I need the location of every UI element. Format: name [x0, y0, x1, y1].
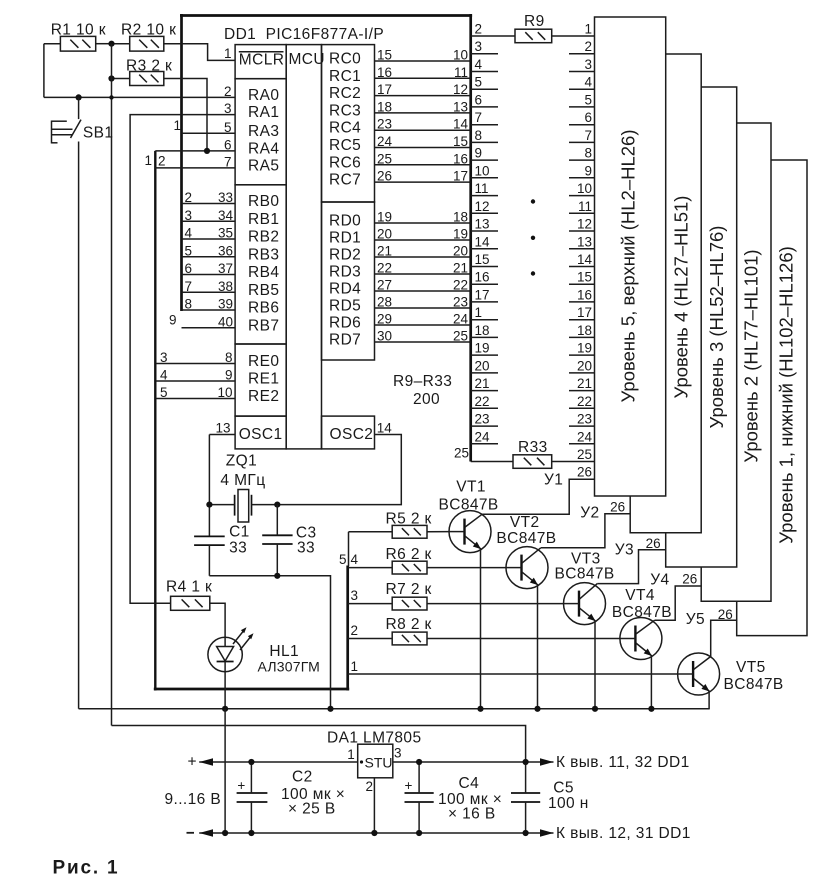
wire R1 left: [44, 43, 61, 45]
node RA4 junction with R3: [204, 148, 210, 154]
svg-text:BC847B: BC847B: [555, 566, 615, 583]
svg-text:+: +: [237, 778, 245, 793]
svg-text:К выв. 11, 32 DD1: К выв. 11, 32 DD1: [556, 754, 690, 771]
svg-text:21: 21: [577, 376, 592, 391]
svg-text:RC1: RC1: [329, 68, 361, 85]
svg-text:3: 3: [475, 39, 483, 54]
node Y1 wire from display1 pin26: [482, 479, 594, 514]
svg-text:VT2: VT2: [510, 514, 540, 531]
svg-text:9: 9: [475, 146, 483, 161]
svg-text:У5: У5: [686, 611, 705, 628]
svg-text:У1: У1: [544, 472, 563, 489]
svg-text:2: 2: [584, 39, 592, 54]
svg-text:8: 8: [584, 146, 592, 161]
wire RB7 stub: [182, 327, 236, 329]
IC left column box: RB section: [235, 185, 286, 344]
wire RD1 to board edge: [375, 239, 471, 241]
thick routed wire right vertical x347.7: [346, 566, 349, 691]
svg-text:RB4: RB4: [248, 264, 279, 281]
wire junction to R3: [112, 78, 130, 80]
wire RB2 stub: [182, 238, 236, 240]
minus sign: [187, 832, 195, 834]
svg-text:BC847B: BC847B: [496, 530, 556, 547]
node Y3 wire from display3 pin26: [597, 550, 665, 584]
svg-text:RC2: RC2: [329, 85, 361, 102]
svg-text:RC6: RC6: [329, 154, 361, 171]
svg-text:BC847B: BC847B: [439, 497, 499, 514]
svg-text:4: 4: [475, 57, 483, 72]
svg-text:RA0: RA0: [248, 87, 279, 104]
transistor VT5: [678, 653, 720, 709]
board outline top edge: [180, 14, 472, 17]
wire R1 right to junction: [96, 43, 112, 45]
svg-text:14: 14: [377, 421, 393, 436]
wire stub contact 18: [471, 336, 498, 338]
svg-text:RD0: RD0: [329, 213, 361, 230]
wire stub contact 20: [471, 372, 498, 374]
svg-text:4: 4: [584, 75, 592, 90]
IC left column box: MCLR section: [235, 45, 286, 79]
wire stub contact 11: [471, 195, 498, 197]
wire RE0 stub: [156, 363, 235, 365]
wire stub contact 23: [471, 425, 498, 427]
wire to R7: [348, 603, 393, 605]
wire stub display pin 11: [569, 212, 595, 214]
svg-text:MCU: MCU: [289, 51, 326, 68]
svg-text:C5: C5: [553, 780, 574, 797]
wire stub contact 15: [471, 266, 498, 268]
node C3 ground junction: [274, 573, 280, 579]
voltage regulator DA1 box: [358, 744, 393, 778]
transistor VT2: [506, 547, 548, 709]
svg-text:200: 200: [413, 391, 440, 408]
svg-text:16: 16: [577, 287, 592, 302]
display column HL27-HL51 (Level 4): [630, 54, 701, 533]
svg-text:ZQ1: ZQ1: [226, 453, 257, 470]
svg-text:1: 1: [224, 46, 232, 61]
node Y2 wire from display2 pin26: [541, 514, 630, 548]
svg-text:BC847B: BC847B: [612, 604, 672, 621]
wire stub display pin 7: [569, 141, 595, 143]
ellipsis dots between buses: [531, 199, 535, 203]
svg-text:5: 5: [339, 552, 347, 567]
svg-text:+: +: [405, 778, 413, 793]
svg-text:RC3: RC3: [329, 102, 361, 119]
svg-text:HL1: HL1: [269, 643, 299, 660]
svg-text:RD6: RD6: [329, 315, 361, 332]
display column HL2-HL26 (Level 5): [595, 17, 666, 496]
wire RB1 stub: [182, 220, 236, 222]
wire RE1 stub: [156, 380, 235, 382]
svg-text:7: 7: [584, 128, 592, 143]
wire stub display pin 14: [569, 266, 595, 268]
+5V rail wire: [112, 726, 526, 763]
svg-text:22: 22: [475, 394, 490, 409]
svg-text:1: 1: [475, 305, 483, 320]
wire stub contact 17: [471, 301, 498, 303]
svg-text:Уровень 1, нижний (HL102–HL126: Уровень 1, нижний (HL102–HL126): [776, 246, 797, 544]
svg-text:1: 1: [347, 747, 355, 762]
wire stub display pin 23: [569, 425, 595, 427]
wire to R6: [348, 567, 393, 569]
svg-text:R4 1 к: R4 1 к: [166, 579, 212, 596]
IC middle MCU box: [286, 45, 321, 449]
wire OSC1 pin 13: [209, 434, 235, 436]
svg-text:3: 3: [351, 588, 359, 603]
wire RC2 to board edge: [375, 95, 471, 97]
wire RC0 to board edge: [375, 60, 471, 62]
svg-text:18: 18: [475, 323, 490, 338]
output line DA1 pin3: [393, 761, 554, 763]
wire stub contact 8: [471, 141, 498, 143]
svg-text:DD1 PIC16F877A-I/P: DD1 PIC16F877A-I/P: [224, 26, 384, 43]
svg-text:RD1: RD1: [329, 230, 361, 247]
wire RA1 row to R4: [130, 115, 235, 604]
svg-text:3: 3: [394, 746, 402, 761]
plus input line: [199, 761, 358, 763]
wire stub display pin 3: [569, 71, 595, 73]
wire RC6 to board edge: [375, 164, 471, 166]
wire RB0 stub: [182, 203, 236, 205]
svg-text:RB5: RB5: [248, 282, 279, 299]
svg-text:RC4: RC4: [329, 120, 361, 137]
wire stub display pin 6: [569, 124, 595, 126]
svg-text:RD5: RD5: [329, 298, 361, 315]
svg-text:1: 1: [584, 22, 592, 37]
wire RD5 to board edge: [375, 307, 471, 309]
svg-text:13: 13: [475, 217, 490, 232]
svg-text:11: 11: [475, 181, 489, 196]
svg-text:RD7: RD7: [329, 332, 361, 349]
ground bus wire: [79, 708, 710, 710]
wire R1 left vertical to RA0: [43, 44, 45, 98]
svg-text:10: 10: [577, 181, 592, 196]
wire OSC2 pin 14 loop: [277, 435, 401, 505]
svg-text:9...16 В: 9...16 В: [165, 791, 222, 808]
svg-text:4: 4: [351, 552, 359, 567]
wire R3 right to RA4: [164, 79, 207, 151]
wire RD4 to board edge: [375, 290, 471, 292]
svg-text:RA4: RA4: [248, 140, 279, 157]
wire stub contact 14: [471, 248, 498, 250]
wire RC5 to board edge: [375, 147, 471, 149]
svg-text:SB1: SB1: [83, 125, 114, 142]
wire stub display pin 16: [569, 301, 595, 303]
svg-text:24: 24: [475, 429, 491, 444]
wire stub display pin 17: [569, 319, 595, 321]
node crystal left junction: [206, 502, 212, 508]
svg-text:19: 19: [475, 341, 490, 356]
svg-text:Рис. 1: Рис. 1: [53, 858, 120, 879]
wire to R5: [349, 531, 393, 533]
wire stub contact 16: [471, 283, 498, 285]
wire stub contact 9: [471, 159, 498, 161]
wire stub display pin 9: [569, 177, 595, 179]
svg-text:× 25 В: × 25 В: [288, 801, 336, 818]
thick routed wire vertical x155: [154, 151, 156, 691]
wire stub contact 4: [471, 71, 498, 73]
svg-text:26: 26: [610, 500, 625, 515]
+5V vertical from pull-up junction: [111, 44, 113, 726]
svg-text:R9: R9: [524, 13, 545, 30]
svg-text:25: 25: [454, 446, 469, 461]
svg-text:MCLR: MCLR: [239, 52, 285, 69]
svg-text:33: 33: [229, 540, 247, 557]
wire stub contact 5: [471, 88, 498, 90]
wire R5 corner vertical: [348, 532, 350, 566]
svg-text:RE2: RE2: [248, 388, 279, 405]
node R1/R2 junction: [108, 41, 114, 47]
wire R9 to display pin 1: [552, 35, 595, 37]
wire R8 to VT4 base: [427, 638, 620, 640]
wire RA4 row: [155, 150, 235, 152]
svg-text:RB3: RB3: [248, 246, 279, 263]
svg-text:9: 9: [584, 163, 592, 178]
svg-text:VT4: VT4: [625, 587, 655, 604]
svg-text:11: 11: [578, 199, 592, 214]
display column HL102-HL126 (Level 1): [737, 160, 807, 636]
svg-text:5: 5: [475, 75, 483, 90]
wire stub display pin 13: [569, 248, 595, 250]
svg-text:100 н: 100 н: [548, 795, 589, 812]
svg-text:3: 3: [584, 57, 592, 72]
wire R2 to MCLR pin 1: [164, 44, 235, 61]
transistor VT1: [449, 511, 491, 709]
wire R6 to VT2 base: [427, 567, 506, 569]
wire stub contact 19: [471, 354, 498, 356]
svg-text:VT1: VT1: [456, 479, 486, 496]
wire RE2 stub: [156, 398, 235, 400]
wire contact 1 to VT5 base: [348, 673, 678, 675]
svg-text:STU: STU: [365, 755, 393, 771]
wire board edge to R33: [471, 461, 513, 463]
svg-text:RA1: RA1: [248, 104, 279, 121]
svg-text:У3: У3: [615, 542, 634, 559]
wire stub display pin 15: [569, 283, 595, 285]
IC right column box: OSC2 section: [322, 416, 375, 449]
svg-text:VT5: VT5: [736, 659, 766, 676]
svg-text:RC5: RC5: [329, 137, 361, 154]
wire stub display pin 22: [569, 407, 595, 409]
wire stub contact 1: [471, 319, 498, 321]
wire junction to R2: [112, 43, 130, 45]
wire OSC1 vertical: [208, 435, 210, 537]
svg-text:33: 33: [297, 540, 315, 557]
svg-text:RE0: RE0: [248, 353, 279, 370]
svg-text:× 16 В: × 16 В: [448, 806, 496, 823]
minus line: [199, 832, 553, 834]
svg-text:C1: C1: [229, 524, 250, 541]
svg-text:2: 2: [475, 22, 483, 37]
wire DA1 pin2 to minus line: [373, 778, 375, 833]
svg-text:17: 17: [475, 287, 490, 302]
svg-text:R9–R33: R9–R33: [393, 373, 452, 390]
transistor VT3: [564, 583, 606, 709]
svg-text:АЛ307ГМ: АЛ307ГМ: [258, 659, 321, 675]
node R3 junction: [108, 75, 114, 81]
svg-text:Уровень 3 (HL52–HL76): Уровень 3 (HL52–HL76): [706, 226, 727, 429]
svg-text:Уровень 4 (HL27–HL51): Уровень 4 (HL27–HL51): [671, 196, 692, 399]
wire ground to minus line x225: [224, 709, 226, 833]
wire RD3 to board edge: [375, 273, 471, 275]
wire RC4 to board edge: [375, 129, 471, 131]
svg-text:У2: У2: [580, 505, 599, 522]
wire RB6 stub: [182, 309, 236, 311]
svg-text:4 МГц: 4 МГц: [220, 472, 265, 489]
wire stub contact 13: [471, 230, 498, 232]
svg-text:17: 17: [577, 305, 592, 320]
IC left column box: RA section: [235, 79, 286, 185]
wire RD2 to board edge: [375, 256, 471, 258]
svg-text:BC847B: BC847B: [724, 676, 784, 693]
svg-text:RD2: RD2: [329, 247, 361, 264]
wire stub contact 6: [471, 106, 498, 108]
IC right column box: RD section: [322, 202, 375, 360]
svg-text:13: 13: [577, 234, 592, 249]
wire stub display pin 24: [569, 443, 595, 445]
svg-text:C2: C2: [292, 769, 313, 786]
IC left column box: OSC1 section: [235, 416, 286, 449]
svg-text:RD3: RD3: [329, 264, 361, 281]
svg-text:2: 2: [366, 779, 374, 794]
wire stub contact 21: [471, 390, 498, 392]
svg-text:C4: C4: [459, 775, 480, 792]
wire stub contact 3: [471, 53, 498, 55]
svg-text:16: 16: [475, 270, 490, 285]
svg-text:10: 10: [475, 163, 490, 178]
wire LED cathode to ground: [224, 672, 226, 709]
wire stub contact 10: [471, 177, 498, 179]
wire RA0 row: [44, 96, 235, 98]
wire RB5 stub: [182, 291, 236, 293]
svg-text:RC7: RC7: [329, 172, 361, 189]
wire stub display pin 12: [569, 230, 595, 232]
wire stub display pin 2: [569, 53, 595, 55]
wire board edge to R9: [471, 35, 515, 37]
svg-text:7: 7: [475, 110, 483, 125]
wire stub contact 22: [471, 407, 498, 409]
wire stub display pin 10: [569, 195, 595, 197]
svg-text:25: 25: [577, 447, 592, 462]
svg-text:Уровень 5, верхний (HL2–HL26): Уровень 5, верхний (HL2–HL26): [618, 129, 639, 402]
svg-text:RB1: RB1: [248, 211, 279, 228]
svg-text:+: +: [188, 754, 197, 771]
svg-text:5: 5: [584, 92, 592, 107]
display column HL52-HL76 (Level 3): [666, 87, 737, 567]
svg-text:13: 13: [215, 421, 230, 436]
wire to R8: [348, 638, 393, 640]
IC right column box: RC section: [322, 45, 375, 202]
svg-text:24: 24: [577, 429, 593, 444]
svg-text:2: 2: [158, 154, 166, 169]
svg-text:RA5: RA5: [248, 157, 279, 174]
wire stub display pin 18: [569, 336, 595, 338]
pushbutton SB1: [52, 97, 82, 708]
svg-text:R8 2 к: R8 2 к: [386, 616, 432, 633]
svg-text:15: 15: [577, 270, 592, 285]
svg-text:23: 23: [577, 412, 592, 427]
wire RA5 row: [155, 167, 235, 169]
svg-text:26: 26: [718, 607, 733, 622]
svg-text:15: 15: [475, 252, 490, 267]
svg-text:26: 26: [646, 536, 661, 551]
wire stub display pin 4: [569, 88, 595, 90]
svg-text:26: 26: [682, 572, 697, 587]
node SB1 junction on RA0 wire: [76, 94, 82, 100]
svg-text:23: 23: [475, 412, 490, 427]
wire stub contact 24: [471, 443, 498, 445]
svg-text:6: 6: [475, 92, 483, 107]
wire RD0 to board edge: [375, 222, 471, 224]
wire stub contact 12: [471, 212, 498, 214]
svg-text:6: 6: [584, 110, 592, 125]
svg-text:RE1: RE1: [248, 371, 279, 388]
svg-text:RB7: RB7: [248, 317, 279, 334]
svg-text:Уровень 2 (HL77–HL101): Уровень 2 (HL77–HL101): [741, 249, 762, 462]
node crystal right junction: [274, 502, 280, 508]
svg-text:18: 18: [577, 323, 592, 338]
wire stub display pin 20: [569, 372, 595, 374]
wire R4 to LED: [210, 603, 225, 637]
svg-text:22: 22: [577, 394, 592, 409]
svg-text:OSC2: OSC2: [330, 426, 374, 443]
wire RA3 stub: [182, 132, 236, 134]
wire R7 to VT3 base: [427, 603, 564, 605]
svg-text:21: 21: [475, 376, 490, 391]
svg-text:R33: R33: [518, 439, 548, 456]
wire RC3 to board edge: [375, 112, 471, 114]
wire RC1 to board edge: [375, 77, 471, 79]
wire caps ground bus: [209, 576, 330, 709]
svg-text:1: 1: [351, 659, 359, 674]
svg-text:R6 2 к: R6 2 к: [386, 546, 432, 563]
transistor VT4: [620, 618, 662, 709]
wire RD7 to board edge: [375, 341, 471, 343]
svg-text:RB0: RB0: [248, 193, 279, 210]
wire R33 to display pin 25: [552, 461, 595, 463]
svg-text:RC0: RC0: [329, 51, 361, 68]
svg-text:R7 2 к: R7 2 к: [386, 581, 432, 598]
svg-text:20: 20: [475, 358, 490, 373]
wire stub display pin 21: [569, 390, 595, 392]
node Y4 wire from display4 pin26: [655, 586, 702, 620]
svg-text:OSC1: OSC1: [239, 426, 283, 443]
svg-text:1: 1: [173, 118, 181, 133]
IC left column box: RE section: [235, 344, 286, 416]
wire stub display pin 8: [569, 159, 595, 161]
wire stub contact 7: [471, 124, 498, 126]
wire stub display pin 19: [569, 354, 595, 356]
svg-text:12: 12: [577, 217, 592, 232]
small junction blob at x111.5/RA0: [109, 95, 113, 99]
svg-text:12: 12: [475, 199, 490, 214]
thick routed wire bottom: [154, 688, 349, 691]
svg-text:2: 2: [351, 623, 359, 638]
svg-text:14: 14: [475, 234, 491, 249]
wire RD6 to board edge: [375, 324, 471, 326]
svg-text:RD4: RD4: [329, 281, 361, 298]
svg-text:RB2: RB2: [248, 229, 279, 246]
wire RB4 stub: [182, 274, 236, 276]
svg-text:26: 26: [577, 465, 592, 480]
wire stub display pin 5: [569, 106, 595, 108]
board outline left edge: [180, 14, 183, 311]
svg-text:8: 8: [475, 128, 483, 143]
svg-text:У4: У4: [650, 572, 669, 589]
svg-text:1: 1: [144, 153, 152, 168]
display column HL77-HL101 (Level 2): [701, 123, 771, 601]
svg-text:К выв. 12, 31 DD1: К выв. 12, 31 DD1: [556, 825, 691, 842]
